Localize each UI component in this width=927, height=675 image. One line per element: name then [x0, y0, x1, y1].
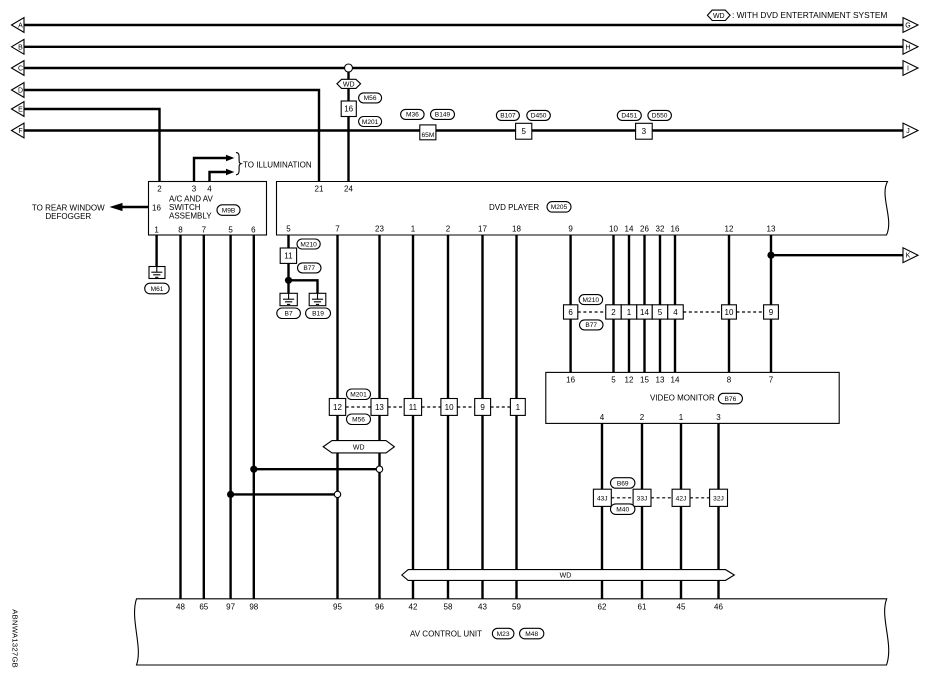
node A arrow [12, 18, 25, 33]
svg-text:VIDEO MONITOR: VIDEO MONITOR [650, 394, 715, 403]
connector label M48 [520, 628, 544, 639]
connector label D450 [527, 110, 551, 120]
connector label B149 [431, 109, 455, 119]
wire branch to ground B19 [289, 280, 318, 293]
wire DVD pin 13 to VM pin 7 [770, 235, 772, 372]
svg-text:M23: M23 [497, 631, 510, 638]
junction open circle on bus C [345, 64, 353, 72]
WD option symbol on branch [337, 79, 361, 88]
connector label B76 [718, 393, 742, 404]
svg-text:8: 8 [727, 376, 732, 385]
svg-text:6: 6 [251, 225, 256, 234]
svg-text:1: 1 [679, 413, 684, 422]
svg-text:A/C AND AV: A/C AND AV [169, 194, 214, 203]
junction open circle on DVD pin 7 wire [334, 491, 340, 497]
connector label B7 [277, 308, 301, 319]
svg-text:M61: M61 [151, 286, 164, 293]
svg-text:AV CONTROL UNIT: AV CONTROL UNIT [410, 630, 482, 639]
svg-text:K: K [906, 253, 911, 260]
svg-text:45: 45 [677, 603, 686, 612]
svg-text:43: 43 [478, 603, 487, 612]
svg-text:WD: WD [353, 444, 365, 451]
connector pin 11 (M210/B77) [280, 248, 296, 263]
svg-text:10: 10 [725, 308, 734, 317]
svg-text:3: 3 [642, 127, 647, 136]
wire DVD pin 32 to VM pin 13 [659, 235, 661, 372]
node B arrow [12, 39, 25, 54]
VM bottom pin labels [600, 413, 722, 422]
svg-text:18: 18 [512, 225, 521, 234]
wire A/C pin 1 to ground [155, 235, 157, 267]
wire DVD pin 5 to grounds [287, 235, 289, 293]
svg-text:14: 14 [671, 376, 680, 385]
wire bus B [23, 46, 904, 48]
svg-text:21: 21 [315, 184, 324, 193]
svg-text:M48: M48 [525, 631, 538, 638]
svg-text:9: 9 [568, 225, 573, 234]
svg-text:5: 5 [286, 225, 291, 234]
wire branch from bus C down to DVD pin 24 [347, 70, 349, 182]
svg-text:3: 3 [716, 413, 721, 422]
svg-text:2: 2 [157, 184, 162, 193]
svg-text:32J: 32J [713, 495, 724, 502]
svg-text:14: 14 [640, 308, 649, 317]
node C arrow [12, 61, 25, 76]
svg-text:M9B: M9B [222, 207, 236, 214]
svg-text:17: 17 [478, 225, 487, 234]
svg-text:2: 2 [640, 413, 645, 422]
connector pin 4 (M210/B77 row) [668, 305, 684, 319]
svg-text:7: 7 [769, 376, 774, 385]
connector pin 13 (M201/M56) [371, 399, 388, 416]
wire DVD pin 23 to AV pin 96 [378, 235, 380, 599]
node F arrow [12, 123, 25, 138]
wire bus F [23, 129, 904, 131]
svg-text:WD: WD [713, 13, 725, 20]
AV top pin labels [176, 603, 723, 612]
svg-text:6: 6 [568, 308, 573, 317]
svg-text:B69: B69 [617, 480, 629, 487]
arrowhead illumination 1 [226, 155, 234, 161]
connector pin 3 on bus F [636, 123, 653, 139]
svg-text:ASSEMBLY: ASSEMBLY [169, 212, 212, 221]
svg-text:98: 98 [249, 603, 258, 612]
wire bus C [23, 67, 904, 69]
svg-text:B19: B19 [312, 311, 324, 318]
svg-text:SWITCH: SWITCH [169, 203, 201, 212]
svg-text:12: 12 [333, 403, 342, 412]
wire DVD pin 12 to VM pin 8 [728, 235, 730, 372]
svg-text:96: 96 [375, 603, 384, 612]
svg-text:16: 16 [344, 105, 353, 114]
svg-text:16: 16 [566, 376, 575, 385]
svg-text:12: 12 [725, 225, 734, 234]
wire A/C pin 8 to AV pin 48 [179, 235, 181, 599]
svg-text:B7: B7 [285, 311, 293, 318]
wire DVD pin 17 to AV pin 43 [481, 235, 483, 599]
svg-text:15: 15 [640, 376, 649, 385]
svg-text:24: 24 [344, 184, 353, 193]
AV control unit box [135, 599, 889, 665]
svg-text:D: D [18, 88, 23, 95]
connector label D550 [648, 110, 672, 120]
svg-text:33J: 33J [637, 495, 648, 502]
svg-text:M201: M201 [350, 392, 367, 399]
svg-text:13: 13 [767, 225, 776, 234]
connector label B19 [306, 308, 331, 319]
svg-text:46: 46 [714, 603, 723, 612]
wire branch pin 5 to DVD pin 7 line [231, 493, 334, 495]
svg-text:: WITH DVD ENTERTAINMENT SYSTE: : WITH DVD ENTERTAINMENT SYSTEM [732, 10, 887, 20]
wire pin 4 to illumination [210, 172, 227, 182]
svg-text:8: 8 [178, 225, 183, 234]
connector pin 11 (M201/M56) [404, 399, 421, 416]
connector label M56 row [347, 414, 371, 425]
svg-text:5: 5 [521, 127, 526, 136]
ground B7 [280, 293, 297, 305]
svg-text:42: 42 [409, 603, 418, 612]
svg-text:D450: D450 [531, 113, 547, 120]
wire DVD pin 1 to AV pin 42 [412, 235, 414, 599]
svg-text:59: 59 [512, 603, 521, 612]
wire A/C pin 5 to AV pin 97 [229, 235, 231, 599]
svg-text:B107: B107 [500, 113, 516, 120]
svg-text:M56: M56 [364, 95, 377, 102]
svg-text:11: 11 [409, 403, 418, 412]
svg-text:65: 65 [199, 603, 208, 612]
video monitor box B76 [546, 372, 839, 423]
wire DVD pin 2 to AV pin 58 [447, 235, 449, 599]
svg-text:ABNWA1327GB: ABNWA1327GB [11, 609, 20, 668]
connector pin 5 (M210/B77 row) [652, 305, 668, 319]
svg-text:12: 12 [625, 376, 634, 385]
svg-text:10: 10 [445, 403, 454, 412]
node K arrow [903, 248, 918, 263]
arrowhead illumination 2 [226, 169, 234, 175]
svg-text:B149: B149 [435, 112, 451, 119]
connector label D451 [617, 110, 641, 120]
arrowhead defogger [110, 203, 123, 211]
connector pin 6 (M210/B77 row) [564, 305, 578, 319]
connector pin 43J (B69/M40) [593, 489, 611, 506]
svg-text:4: 4 [207, 184, 212, 193]
svg-text:58: 58 [444, 603, 453, 612]
node G arrow [903, 18, 918, 33]
svg-text:26: 26 [640, 225, 649, 234]
svg-text:97: 97 [226, 603, 235, 612]
wire pin 3 to illumination [194, 158, 226, 182]
connector label M205 [547, 202, 571, 213]
svg-text:D550: D550 [652, 113, 668, 120]
svg-text:M40: M40 [616, 507, 629, 514]
wire A/C pin 7 to AV pin 65 [203, 235, 205, 599]
connector label M56 [359, 93, 382, 103]
svg-text:TO ILLUMINATION: TO ILLUMINATION [243, 160, 312, 169]
junction dot pin 5 branch [227, 491, 234, 498]
svg-text:M56: M56 [352, 417, 365, 424]
svg-text:WD: WD [560, 573, 572, 580]
wire bus E [23, 109, 160, 182]
svg-text:B: B [18, 44, 23, 51]
svg-text:B77: B77 [585, 322, 597, 329]
wire pin 16 to rear window defogger [121, 206, 149, 208]
svg-text:J: J [906, 128, 910, 135]
svg-text:E: E [18, 107, 23, 114]
connector pin 32J (B69/M40) [710, 489, 728, 506]
svg-text:61: 61 [638, 603, 647, 612]
svg-text:D451: D451 [621, 113, 637, 120]
svg-text:1: 1 [627, 308, 632, 317]
svg-text:32: 32 [656, 225, 665, 234]
node H arrow [903, 39, 918, 54]
connector pin 42J (B69/M40) [672, 489, 690, 506]
connector pin 9 (M210/B77 row) [764, 305, 779, 319]
svg-text:2: 2 [446, 225, 451, 234]
WD option band large [402, 570, 735, 581]
wire VM pin 3 to AV pin 46 [717, 423, 719, 598]
svg-text:48: 48 [176, 603, 185, 612]
svg-text:H: H [905, 44, 910, 51]
dashed links connector row M201/M56 [346, 406, 511, 408]
junction dot pin 6 branch [250, 466, 257, 473]
junction dot ground branch [285, 277, 292, 284]
connector pin 2 (M210/B77 row) [606, 305, 622, 319]
node I arrow [903, 61, 918, 76]
connector pin 10 (M210/B77 row) [722, 305, 737, 319]
connector label M210 row [579, 295, 603, 305]
svg-text:2: 2 [611, 308, 616, 317]
wire bus A [23, 24, 904, 26]
svg-text:7: 7 [335, 225, 340, 234]
svg-text:WD: WD [343, 81, 355, 88]
svg-text:4: 4 [673, 308, 678, 317]
svg-text:A: A [18, 23, 23, 30]
svg-text:M210: M210 [300, 241, 317, 248]
svg-text:1: 1 [154, 225, 159, 234]
wire A/C pin 6 to AV pin 98 [253, 235, 255, 599]
connector label M40 [611, 504, 635, 515]
svg-text:43J: 43J [597, 495, 608, 502]
connector label B77 [298, 263, 322, 273]
junction dot on DVD pin 13 wire [767, 252, 774, 259]
wire DVD pin 18 to AV pin 59 [515, 235, 517, 599]
wire DVD pin 10 to VM pin 5 [612, 235, 614, 372]
svg-text:65M: 65M [421, 132, 434, 139]
WD option band small [323, 441, 394, 453]
A/C and AV switch assembly M9B [149, 182, 267, 236]
svg-text:DEFOGGER: DEFOGGER [45, 212, 91, 221]
legend WD symbol [707, 10, 730, 20]
connector pin 16 (M56/M201) [341, 101, 356, 117]
svg-text:3: 3 [192, 184, 197, 193]
svg-text:I: I [907, 66, 909, 73]
svg-text:14: 14 [625, 225, 634, 234]
svg-text:DVD PLAYER: DVD PLAYER [489, 203, 539, 212]
connector label B69 [611, 478, 635, 489]
connector label M36 [401, 109, 425, 119]
connector label B77 row [580, 320, 604, 330]
svg-text:42J: 42J [676, 495, 687, 502]
svg-text:13: 13 [656, 376, 665, 385]
junction open circle on DVD pin 23 wire [376, 466, 382, 472]
node J arrow [903, 123, 918, 138]
wire bus D [23, 90, 319, 182]
wire VM pin 1 to AV pin 45 [680, 423, 682, 598]
svg-text:7: 7 [202, 225, 207, 234]
wire DVD pin 7 to AV pin 95 [336, 235, 338, 599]
svg-text:M205: M205 [551, 204, 568, 211]
svg-text:5: 5 [611, 376, 616, 385]
connector pin 9 (M201/M56) [475, 399, 491, 416]
svg-text:9: 9 [769, 308, 774, 317]
svg-text:23: 23 [375, 225, 384, 234]
svg-text:G: G [905, 23, 910, 30]
ground B19 [309, 293, 326, 305]
svg-text:11: 11 [284, 252, 293, 261]
connector label M61 [145, 283, 170, 294]
svg-text:C: C [18, 66, 23, 73]
svg-text:16: 16 [671, 225, 680, 234]
svg-text:9: 9 [480, 403, 485, 412]
svg-text:1: 1 [411, 225, 416, 234]
svg-text:13: 13 [375, 403, 384, 412]
svg-text:5: 5 [658, 308, 663, 317]
svg-text:10: 10 [609, 225, 618, 234]
dashed links connector row B69/M40 [611, 497, 709, 499]
connector label M9B [217, 205, 240, 216]
svg-text:4: 4 [600, 413, 605, 422]
wire DVD pin 9 to VM pin 16 [569, 235, 571, 372]
wire branch pin 6 to DVD pin 23 line [254, 468, 377, 470]
svg-text:B76: B76 [725, 396, 737, 403]
connector pin 1 (M201/M56) [510, 399, 525, 416]
svg-text:16: 16 [152, 203, 161, 212]
connector 65M on bus F [420, 125, 436, 140]
DVD bottom pin labels [286, 225, 776, 234]
dashed links connector row M210/B77 [578, 311, 764, 313]
svg-text:M36: M36 [406, 112, 419, 119]
svg-text:F: F [18, 128, 22, 135]
connector label M23 [492, 628, 514, 639]
wire VM pin 4 to AV pin 62 [601, 423, 603, 598]
svg-text:M210: M210 [583, 297, 600, 304]
wire DVD pin 16 to VM pin 14 [674, 235, 676, 372]
svg-text:M201: M201 [362, 119, 379, 126]
node E arrow [12, 102, 25, 117]
node D arrow [12, 83, 25, 98]
connector label M210 [297, 239, 320, 249]
connector pin 14 (M210/B77 row) [637, 305, 653, 319]
brace for illumination [236, 152, 241, 174]
svg-text:5: 5 [228, 225, 233, 234]
ground M61 [149, 267, 165, 279]
connector label M201 row [347, 389, 371, 400]
svg-text:95: 95 [333, 603, 342, 612]
wire VM pin 2 to AV pin 61 [641, 423, 643, 598]
VM top pin labels [566, 376, 774, 385]
connector pin 33J (B69/M40) [633, 489, 651, 506]
connector pin 1 (M210/B77 row) [621, 305, 637, 319]
svg-text:B77: B77 [303, 265, 315, 272]
svg-text:1: 1 [516, 403, 521, 412]
connector pin 12 (M201/M56) [329, 399, 345, 416]
wire DVD pin 26 to VM pin 15 [643, 235, 645, 372]
DVD player box [277, 182, 889, 236]
wire branch DVD pin 13 to node K [771, 254, 904, 256]
svg-text:62: 62 [598, 603, 607, 612]
connector label B107 [496, 110, 519, 120]
connector pin 10 (M201/M56) [441, 399, 457, 416]
wire DVD pin 14 to VM pin 12 [628, 235, 630, 372]
connector label M201 [359, 117, 382, 127]
connector pin 5 on bus F [516, 123, 532, 139]
